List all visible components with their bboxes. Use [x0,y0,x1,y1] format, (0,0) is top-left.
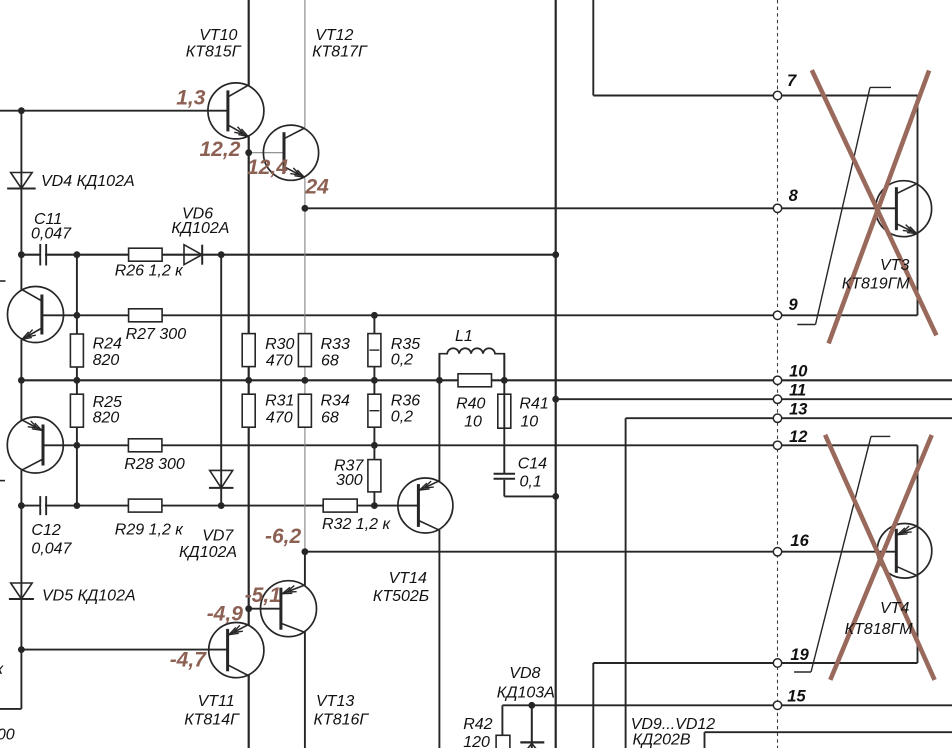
svg-text:0,1: 0,1 [520,474,542,491]
svg-text:11: 11 [789,381,806,399]
svg-text:VT10: VT10 [199,27,237,44]
svg-text:12: 12 [789,428,807,446]
svg-text:68: 68 [321,353,339,370]
svg-text:12,4: 12,4 [247,156,288,179]
svg-text:R30: R30 [265,336,294,353]
svg-text:R33: R33 [321,336,350,353]
svg-text:470: 470 [266,409,293,426]
svg-text:VD4 КД102А: VD4 КД102А [41,173,135,190]
svg-text:68: 68 [321,409,339,426]
svg-text:КД102А: КД102А [171,220,229,237]
svg-text:L1: L1 [455,328,473,345]
svg-text:R32 1,2 к: R32 1,2 к [322,516,391,533]
svg-text:КТ817Г: КТ817Г [312,44,368,61]
svg-text:КД202В: КД202В [633,732,691,748]
svg-text:0,2: 0,2 [391,409,413,426]
svg-text:C12: C12 [31,522,60,539]
svg-text:R31: R31 [265,392,294,409]
svg-text:300: 300 [336,472,363,489]
svg-text:R27 300: R27 300 [126,326,187,343]
svg-text:10: 10 [464,413,482,430]
svg-text:0,2: 0,2 [391,352,413,369]
svg-text:820: 820 [93,409,120,426]
svg-text:9: 9 [789,296,799,314]
svg-text:-4,7: -4,7 [170,649,208,672]
svg-text:10: 10 [520,413,538,430]
svg-text:R29 1,2 к: R29 1,2 к [115,522,184,539]
svg-text:-4,9: -4,9 [207,603,244,626]
svg-text:КТ502Б: КТ502Б [373,588,429,605]
svg-text:0,047: 0,047 [31,541,72,558]
svg-text:-5,1: -5,1 [245,584,281,607]
svg-text:1,3: 1,3 [176,87,206,110]
svg-text:8: 8 [789,187,799,205]
svg-text:VT11: VT11 [198,693,235,710]
svg-text:КТ818ГМ: КТ818ГМ [845,621,914,638]
svg-text:820: 820 [93,352,120,369]
svg-text:16: 16 [790,532,809,550]
svg-text:7: 7 [787,72,797,90]
svg-text:24: 24 [305,176,330,199]
svg-text:R34: R34 [321,392,350,409]
svg-text:10: 10 [789,363,808,381]
svg-text:R42: R42 [463,716,492,733]
svg-text:R36: R36 [391,392,420,409]
svg-text:R26 1,2 к: R26 1,2 к [115,263,184,280]
svg-text:КТ815Г: КТ815Г [186,44,242,61]
svg-text:R28 300: R28 300 [124,456,185,473]
svg-text:VD5 КД102А: VD5 КД102А [42,587,136,604]
svg-text:VT3: VT3 [880,257,909,274]
svg-text:VT12: VT12 [315,27,353,44]
svg-text:VD7: VD7 [202,528,234,545]
svg-text:VD8: VD8 [509,665,540,682]
svg-text:VT14: VT14 [389,570,427,587]
svg-text:19: 19 [790,646,809,664]
svg-text:R24: R24 [93,336,122,353]
svg-text:КД102А: КД102А [179,544,237,561]
svg-text:VD9...VD12: VD9...VD12 [631,716,716,733]
svg-text:300: 300 [0,727,15,744]
svg-text:КТ814Г: КТ814Г [184,712,240,729]
svg-text:КД103А: КД103А [497,685,555,702]
svg-text:12,2: 12,2 [200,138,241,161]
svg-text:R40: R40 [456,395,485,412]
svg-text:120: 120 [463,734,490,748]
svg-text:VT4: VT4 [880,600,909,617]
svg-text:R41: R41 [519,395,548,412]
svg-text:0,047: 0,047 [31,226,72,243]
svg-text:-6,2: -6,2 [265,525,302,548]
svg-text:13: 13 [789,400,807,418]
svg-text:C14: C14 [518,455,547,472]
svg-text:КТ816Г: КТ816Г [314,712,370,729]
svg-text:КТ819ГМ: КТ819ГМ [842,276,911,293]
svg-text:VT13: VT13 [316,693,354,710]
svg-text:470: 470 [266,353,293,370]
svg-text:15: 15 [787,687,806,705]
